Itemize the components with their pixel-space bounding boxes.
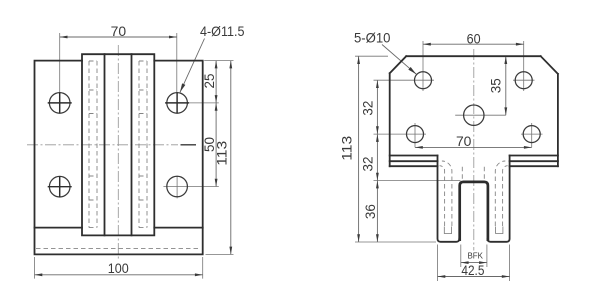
- left view hidden slot lines (dashed): [89, 61, 147, 228]
- fork slot U (thick): [460, 182, 488, 241]
- svg-text:60: 60: [467, 30, 481, 46]
- fork hidden bend lines right prong: [495, 161, 507, 226]
- svg-text:5-Ø10: 5-Ø10: [354, 29, 391, 45]
- fork hidden bend lines left prong: [440, 161, 452, 226]
- fork slot hidden lines above slot top: [462, 167, 484, 181]
- hole RV lower-left (thin lines): [374, 123, 427, 147]
- left view center block outline: [82, 54, 154, 235]
- dimension 113 (left view): [206, 253, 234, 255]
- dimension 100 (bottom, left view): [35, 257, 203, 279]
- dimension 35 (right view): [505, 56, 507, 115]
- hole upper-right: [167, 93, 188, 114]
- left view plate outline: [35, 61, 203, 255]
- right view plate outline with chamfers: [390, 56, 558, 166]
- svg-text:36: 36: [362, 204, 378, 219]
- dimension 32 lower (right view): [374, 180, 461, 182]
- dimension 113 (right view): [355, 56, 436, 242]
- svg-text:70: 70: [456, 133, 472, 149]
- right view vertical centerline: [473, 49, 475, 251]
- svg-text:35: 35: [488, 78, 504, 93]
- left view bottom flange top edge: [35, 227, 203, 229]
- svg-text:100: 100: [108, 260, 129, 276]
- hole RV lower-left: [407, 126, 424, 143]
- right view bottom band lines: [390, 156, 558, 167]
- hole RV upper-right (thin lines): [513, 41, 535, 91]
- hole RV lower-right: [523, 126, 540, 143]
- dimension BFK (slot width): [461, 245, 487, 268]
- hole RV upper-left: [415, 72, 432, 89]
- dimension 42.5 (fork width): [438, 245, 510, 282]
- dimension 70 (top, left view): [60, 33, 177, 92]
- left view horizontal centerline: [27, 144, 178, 146]
- svg-text:BFK: BFK: [467, 250, 483, 260]
- svg-text:42.5: 42.5: [461, 262, 484, 278]
- dimension 32 upper (right view): [376, 80, 378, 134]
- left view vertical centerline: [117, 45, 119, 260]
- hole RV lower-right (thin lines): [521, 123, 543, 147]
- fork hidden cap right prong: [496, 227, 503, 234]
- svg-text:32: 32: [360, 156, 376, 171]
- hole RV center: [464, 105, 484, 125]
- hole RV upper-left (thin lines): [374, 41, 435, 91]
- svg-text:4-Ø11.5: 4-Ø11.5: [200, 23, 245, 39]
- hole lower-left: [49, 176, 70, 197]
- hole upper-left: [49, 93, 70, 114]
- dimension 70 (right view): [415, 146, 532, 148]
- dimension 36 (right view): [376, 181, 378, 242]
- centerline end dash: [181, 144, 197, 146]
- dimension 25 (left view right side): [204, 60, 233, 62]
- hole lower-right: [167, 176, 188, 197]
- fork hidden cap left prong: [444, 227, 451, 234]
- fork outline: [438, 156, 510, 242]
- dimension 60 (top, right view): [423, 43, 524, 45]
- left view block inner edges: [105, 54, 132, 235]
- hole RV center (thin lines): [455, 114, 506, 116]
- hole lower-right (thin lines): [163, 176, 218, 199]
- dimension 50 (left view right side): [215, 103, 217, 187]
- svg-text:113: 113: [339, 136, 355, 161]
- hole RV upper-right: [515, 72, 532, 89]
- svg-text:70: 70: [111, 23, 127, 39]
- svg-text:113: 113: [214, 141, 230, 166]
- left view hidden slot caps: [89, 61, 147, 228]
- hole upper-right (thin lines): [189, 102, 219, 104]
- left view flange hidden line: [36, 247, 201, 249]
- svg-text:32: 32: [360, 100, 376, 115]
